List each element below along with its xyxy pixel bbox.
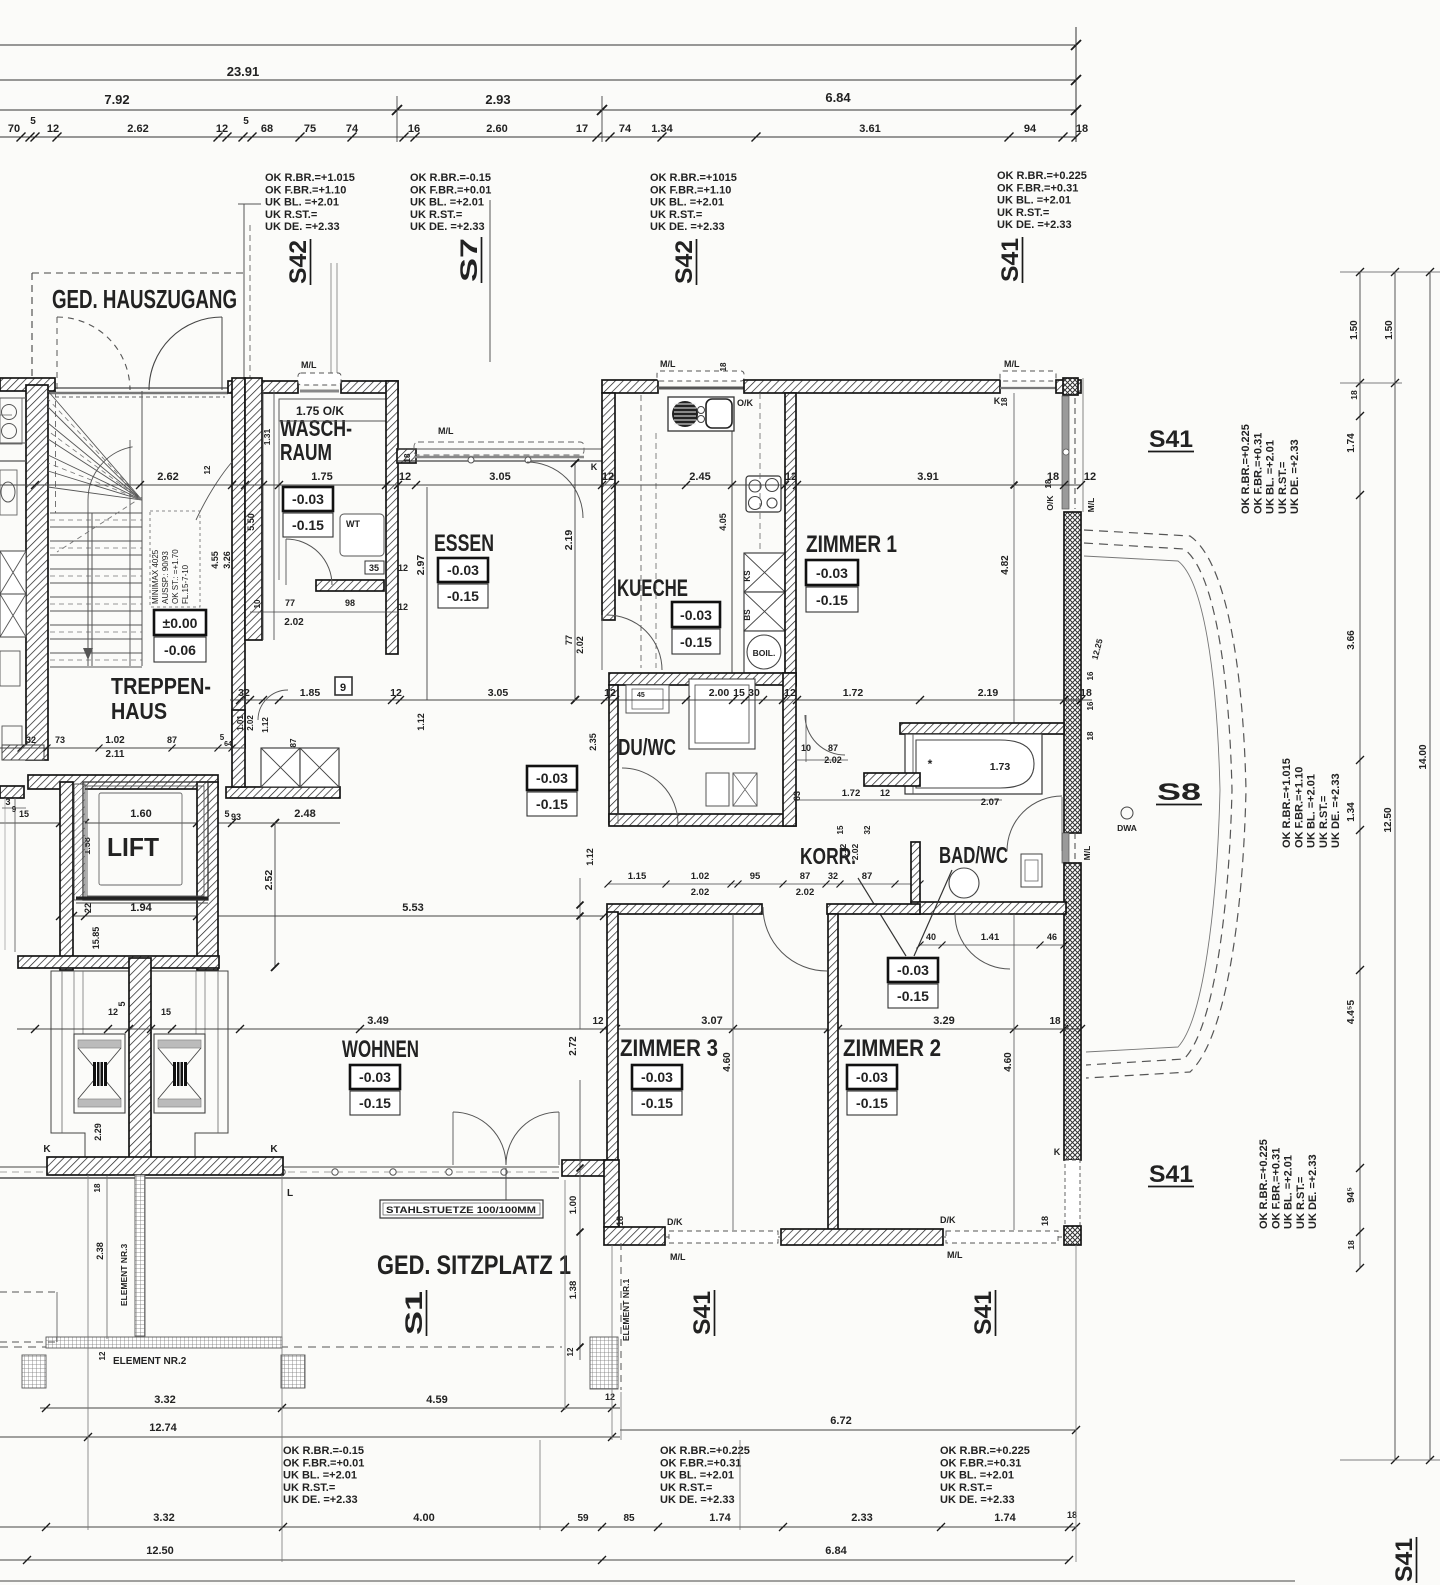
svg-text:UK BL. =+2.01: UK BL. =+2.01 — [283, 1470, 357, 1482]
fixture boiler — [744, 631, 785, 673]
svg-text:2.62: 2.62 — [127, 123, 148, 135]
svg-text:OK F.BR.=+1.10: OK F.BR.=+1.10 — [1293, 767, 1305, 848]
wall zimmer1 top — [744, 380, 1000, 393]
svg-text:OK F.BR.=+0.01: OK F.BR.=+0.01 — [283, 1457, 364, 1469]
svg-text:UK R.ST.=: UK R.ST.= — [1295, 1177, 1307, 1229]
svg-text:K: K — [43, 1144, 51, 1155]
text block minimax rotated — [150, 511, 200, 607]
dimension line y700 interior — [230, 699, 1092, 701]
section mark S41 bottom right — [970, 1290, 997, 1336]
svg-text:OK F.BR.=+0.31: OK F.BR.=+0.31 — [1252, 433, 1264, 514]
wall kueche left — [602, 393, 615, 620]
svg-text:3: 3 — [5, 797, 10, 807]
svg-text:18: 18 — [1086, 731, 1095, 740]
svg-text:ZIMMER 1: ZIMMER 1 — [806, 531, 897, 558]
svg-text:2.02: 2.02 — [246, 715, 255, 731]
svg-text:ELEMENT NR.3: ELEMENT NR.3 — [119, 1244, 129, 1307]
svg-text:18: 18 — [615, 1216, 625, 1226]
svg-text:D/K: D/K — [940, 1215, 956, 1225]
waschraum left interior face — [278, 421, 280, 580]
svg-text:1.50: 1.50 — [1349, 320, 1360, 340]
svg-text:3.07: 3.07 — [701, 1015, 722, 1027]
svg-text:12: 12 — [605, 1392, 615, 1402]
svg-text:WOHNEN: WOHNEN — [342, 1036, 419, 1063]
svg-text:KS: KS — [743, 570, 752, 582]
svg-text:UK BL. =+2.01: UK BL. =+2.01 — [997, 195, 1071, 207]
dimension line y1408 — [40, 1407, 620, 1409]
svg-text:BS: BS — [743, 609, 752, 621]
svg-text:OK F.BR.=+0.31: OK F.BR.=+0.31 — [940, 1457, 1021, 1469]
svg-text:HAUS: HAUS — [111, 698, 167, 724]
wall machine center — [129, 958, 151, 1160]
svg-text:1.12: 1.12 — [261, 717, 270, 733]
svg-text:1.74: 1.74 — [994, 1512, 1016, 1524]
door arc essen-kueche — [527, 462, 583, 518]
window band wohnen bottom — [0, 1166, 559, 1168]
svg-text:-0.15: -0.15 — [292, 517, 324, 533]
svg-text:UK BL. =+2.01: UK BL. =+2.01 — [940, 1470, 1014, 1482]
svg-text:5: 5 — [30, 116, 36, 127]
elevation box essen — [438, 558, 488, 582]
svg-text:5.50: 5.50 — [246, 513, 256, 531]
drain DWA — [1121, 807, 1133, 819]
svg-text:±0.00: ±0.00 — [163, 615, 198, 631]
svg-text:1.02: 1.02 — [691, 871, 710, 882]
door arc zimmer3 — [763, 907, 827, 971]
level text block right top rotated — [1240, 424, 1301, 514]
machine room outline — [51, 971, 228, 1158]
treppenhaus door arc bottom — [258, 690, 288, 720]
svg-text:2.48: 2.48 — [294, 808, 315, 820]
leader lines to elevation box korr/bad — [858, 878, 906, 956]
svg-text:2.02: 2.02 — [691, 887, 710, 898]
canopy edge lines — [238, 203, 261, 205]
svg-text:3.49: 3.49 — [367, 1015, 388, 1027]
svg-text:1.41: 1.41 — [981, 932, 1000, 943]
svg-text:12: 12 — [592, 1016, 604, 1027]
left neighbor x-box cupboards — [0, 551, 26, 594]
level text block right middle rotated — [1281, 758, 1342, 848]
svg-text:STAHLSTUETZE 100/100MM: STAHLSTUETZE 100/100MM — [386, 1205, 536, 1216]
neighbor wall line left of lift — [14, 798, 16, 952]
shaft wall waschraum left — [245, 378, 262, 640]
elevation box staircase +-0.00 / -0.06 — [154, 610, 206, 635]
wall top left block — [0, 378, 55, 391]
svg-text:M/L: M/L — [670, 1252, 686, 1262]
svg-text:3.05: 3.05 — [489, 471, 510, 483]
dim 4.60 rotated z3 — [732, 914, 734, 1230]
svg-text:S7: S7 — [456, 238, 483, 282]
dimension line y1029 — [17, 1028, 1081, 1030]
svg-text:32: 32 — [828, 871, 838, 881]
wall wohnen/zimmer3 divider — [607, 912, 618, 1227]
fixture shower — [689, 679, 755, 749]
svg-text:M/L: M/L — [947, 1250, 963, 1260]
wall staircase right — [232, 378, 245, 748]
svg-text:-0.15: -0.15 — [359, 1095, 391, 1111]
element corner blocks — [22, 1355, 46, 1388]
window zimmer3 bottom D/K M/L — [665, 1236, 781, 1238]
svg-text:1.34: 1.34 — [1346, 802, 1357, 822]
door arc duwc — [622, 768, 678, 824]
elevation box kueche — [672, 602, 720, 627]
bottom vertical extension lines — [87, 1175, 89, 1530]
svg-text:UK DE. =+2.33: UK DE. =+2.33 — [997, 219, 1072, 231]
korr dims 63 1.72 12 2.07 — [796, 799, 1002, 801]
svg-text:-0.03: -0.03 — [292, 491, 324, 507]
lift cab — [83, 782, 208, 900]
svg-text:12: 12 — [880, 788, 890, 798]
svg-text:2.52: 2.52 — [263, 870, 275, 891]
double door wohnen terrace — [453, 1112, 506, 1165]
kitchen counter edge — [731, 431, 733, 673]
svg-text:1.72: 1.72 — [843, 687, 864, 699]
svg-text:OK ST.: =+1.70: OK ST.: =+1.70 — [171, 549, 180, 604]
window M/L zimmer1 top — [1000, 371, 1056, 381]
svg-text:2.35: 2.35 — [588, 733, 598, 751]
svg-text:30: 30 — [748, 687, 760, 699]
fixture washbasin bad — [949, 868, 979, 898]
svg-text:6.84: 6.84 — [825, 90, 851, 105]
svg-text:5.53: 5.53 — [402, 902, 423, 914]
svg-text:18: 18 — [403, 453, 412, 462]
window zimmer2 bottom — [943, 1236, 1062, 1238]
door arc zimmer2 — [955, 914, 1010, 969]
fixture wc duwc — [706, 773, 729, 806]
svg-text:64: 64 — [224, 741, 232, 748]
svg-text:3.29: 3.29 — [933, 1015, 954, 1027]
svg-text:63: 63 — [792, 791, 802, 801]
svg-text:5: 5 — [224, 809, 229, 819]
wall zimmer3/zimmer2 divider — [828, 914, 838, 1230]
svg-text:2.72: 2.72 — [568, 1036, 579, 1056]
dashed canopy boundary hauszugang — [32, 272, 247, 274]
svg-text:98: 98 — [345, 598, 355, 608]
wall bad bottom — [911, 902, 1066, 914]
dimension line y1527 — [0, 1526, 1076, 1528]
svg-text:UK DE. =+2.33: UK DE. =+2.33 — [1330, 773, 1342, 848]
dim line 2.38 vertical — [106, 1176, 108, 1339]
dimension line y884 corridor — [608, 883, 920, 885]
svg-text:95: 95 — [750, 871, 761, 882]
wall duwc bottom — [609, 814, 796, 826]
svg-text:OK R.BR.=+0.225: OK R.BR.=+0.225 — [997, 170, 1087, 182]
svg-text:1.31: 1.31 — [262, 428, 272, 445]
svg-text:MINIMAX 4025: MINIMAX 4025 — [151, 549, 160, 604]
svg-text:-0.15: -0.15 — [897, 988, 929, 1004]
wall staircase left — [26, 385, 48, 760]
svg-text:12: 12 — [47, 123, 59, 135]
svg-text:S41: S41 — [997, 238, 1024, 282]
entry threshold lines — [48, 387, 228, 389]
dimension line 7.92 / 2.93 / 6.84 — [0, 109, 1076, 111]
svg-text:94⁵: 94⁵ — [1346, 1187, 1357, 1203]
dim 2.19 rotated essen — [574, 463, 576, 700]
svg-text:12.50: 12.50 — [146, 1545, 174, 1557]
svg-text:S41: S41 — [970, 1291, 997, 1335]
svg-text:23.91: 23.91 — [227, 64, 260, 79]
kitchen counter dashed lines — [640, 395, 642, 668]
svg-text:WT: WT — [346, 519, 360, 529]
svg-text:6.72: 6.72 — [830, 1415, 851, 1427]
wall band below lift area — [47, 1157, 283, 1175]
wall waschraum right — [386, 381, 398, 654]
svg-text:WASCH-: WASCH- — [280, 415, 352, 441]
svg-text:1.50: 1.50 — [1384, 320, 1395, 340]
svg-text:12: 12 — [398, 563, 408, 573]
section mark S1 — [401, 1290, 428, 1336]
boxed label 9 — [335, 677, 352, 695]
section mark S41 bottom middle — [689, 1290, 716, 1336]
dim 4.82 rotated zimmer1 — [1013, 393, 1015, 723]
wall lift top — [28, 775, 218, 789]
fixture WT washbasin — [340, 514, 384, 556]
svg-text:UK R.ST.=: UK R.ST.= — [940, 1482, 992, 1494]
svg-text:7.92: 7.92 — [104, 92, 129, 107]
svg-text:1.12: 1.12 — [585, 848, 595, 866]
balcony curved parapet dashed inner — [1084, 543, 1232, 1065]
svg-text:-0.15: -0.15 — [856, 1095, 888, 1111]
svg-text:OK R.BR.=+0.225: OK R.BR.=+0.225 — [1240, 424, 1252, 514]
svg-text:UK BL. =+2.01: UK BL. =+2.01 — [1306, 774, 1318, 848]
wall waschraum right notch — [397, 449, 416, 463]
window M/L waschraum top — [298, 373, 341, 385]
svg-text:2.19: 2.19 — [563, 530, 575, 551]
svg-text:4.00: 4.00 — [413, 1512, 434, 1524]
svg-text:S1: S1 — [401, 1291, 428, 1335]
elevation box waschraum — [283, 487, 333, 511]
svg-text:12: 12 — [390, 687, 402, 699]
svg-text:GED. SITZPLATZ 1: GED. SITZPLATZ 1 — [377, 1250, 571, 1280]
svg-text:6.84: 6.84 — [825, 1545, 847, 1557]
svg-text:3.32: 3.32 — [154, 1394, 175, 1406]
svg-text:87: 87 — [800, 871, 811, 882]
svg-text:1.00: 1.00 — [568, 1196, 579, 1215]
elevation box zimmer3 — [632, 1065, 682, 1089]
wall waschraum interior bottom — [316, 580, 384, 591]
svg-text:4.4⁵5: 4.4⁵5 — [1346, 999, 1357, 1024]
waschraum bottom small dims — [250, 611, 398, 613]
svg-text:18: 18 — [719, 362, 728, 371]
svg-text:S42: S42 — [285, 240, 312, 284]
svg-text:4.59: 4.59 — [426, 1394, 447, 1406]
wall duwc right — [783, 673, 796, 826]
fixture KS cupboard x-box — [744, 553, 785, 592]
wall zimmer3 top — [607, 904, 762, 914]
boxed label 35 — [365, 561, 384, 574]
door arc bad — [1007, 796, 1062, 851]
svg-text:68: 68 — [261, 123, 273, 135]
window M/L kitchen top — [657, 371, 744, 381]
svg-text:2.45: 2.45 — [689, 471, 710, 483]
svg-text:-0.03: -0.03 — [816, 565, 848, 581]
svg-text:OK R.BR.=+0.225: OK R.BR.=+0.225 — [1258, 1139, 1270, 1229]
svg-text:D/K: D/K — [667, 1217, 683, 1227]
right dim horizontal connectors — [1340, 271, 1440, 273]
dim line 2.72 wohnen right — [579, 878, 581, 1029]
svg-text:UK DE. =+2.33: UK DE. =+2.33 — [940, 1494, 1015, 1506]
svg-text:OK R.BR.=+0.225: OK R.BR.=+0.225 — [940, 1445, 1030, 1457]
counterweight symbol right — [154, 1034, 205, 1113]
svg-text:O/K: O/K — [1045, 495, 1055, 511]
svg-text:4.55: 4.55 — [210, 551, 220, 569]
svg-text:22: 22 — [83, 903, 93, 913]
wall band right of stair to xboxes — [226, 787, 340, 798]
wall exterior right lower — [1064, 863, 1081, 1160]
svg-text:18: 18 — [1067, 1510, 1077, 1520]
label STAHLSTUETZE boxed — [380, 1200, 543, 1218]
svg-text:87: 87 — [289, 738, 298, 747]
dim 4.60 rotated z2 — [1013, 914, 1015, 1230]
svg-text:UK DE. =+2.33: UK DE. =+2.33 — [1289, 439, 1301, 514]
dashed boundary sitzplatz — [0, 1346, 562, 1348]
svg-text:-0.15: -0.15 — [680, 634, 712, 650]
wall exterior right bottom piece — [1064, 1226, 1081, 1245]
svg-text:18: 18 — [1349, 390, 1359, 400]
svg-text:-0.15: -0.15 — [816, 592, 848, 608]
stair winder treads fan — [48, 391, 142, 500]
dimension line y748 treppenhaus — [0, 747, 245, 749]
element nr2 strip horizontal — [46, 1337, 282, 1348]
svg-text:2.93: 2.93 — [485, 92, 510, 107]
svg-text:12: 12 — [604, 687, 616, 699]
element nr1 dashed vertical — [620, 1243, 622, 1390]
svg-text:12: 12 — [398, 602, 408, 612]
svg-text:K: K — [270, 1144, 278, 1155]
svg-text:1.01: 1.01 — [236, 715, 245, 731]
svg-text:35: 35 — [369, 563, 379, 573]
svg-text:UK R.ST.=: UK R.ST.= — [283, 1482, 335, 1494]
svg-text:9: 9 — [340, 682, 346, 694]
svg-text:OK F.BR.=+0.31: OK F.BR.=+0.31 — [660, 1457, 741, 1469]
svg-text:46: 46 — [1047, 932, 1057, 942]
svg-text:UK DE. =+2.33: UK DE. =+2.33 — [410, 221, 485, 233]
dim 2.52 rotated right of lift — [274, 823, 276, 967]
wall waschraum top — [228, 381, 298, 393]
svg-text:UK R.ST.=: UK R.ST.= — [1277, 462, 1289, 514]
svg-text:2.38: 2.38 — [95, 1242, 105, 1260]
svg-text:40: 40 — [926, 932, 936, 942]
svg-text:75: 75 — [304, 123, 316, 135]
svg-text:-0.06: -0.06 — [164, 642, 196, 658]
svg-text:45: 45 — [637, 692, 645, 699]
svg-text:UK BL. =+2.01: UK BL. =+2.01 — [1283, 1155, 1295, 1229]
svg-text:1.73: 1.73 — [990, 761, 1011, 773]
svg-text:2.02: 2.02 — [850, 843, 860, 860]
svg-text:74: 74 — [619, 123, 632, 135]
svg-text:LIFT: LIFT — [107, 832, 159, 862]
balcony curved parapet dashed outer — [1084, 530, 1246, 1078]
wall duwc top (kitchen bottom) — [609, 673, 796, 685]
dimension line y1437 12.74 — [0, 1436, 620, 1438]
svg-text:12: 12 — [108, 1007, 118, 1017]
dim line bad bottom 40 1.41 46 — [920, 944, 1064, 946]
svg-text:70: 70 — [8, 123, 20, 135]
svg-text:15.85: 15.85 — [91, 927, 101, 950]
svg-text:15: 15 — [161, 1007, 171, 1017]
svg-text:18: 18 — [1040, 1216, 1050, 1226]
fixture stove 4 burners — [746, 476, 781, 512]
elevation box korr/bad — [888, 958, 938, 982]
svg-text:OK R.BR.=+1.015: OK R.BR.=+1.015 — [265, 172, 355, 184]
svg-text:BAD/WC: BAD/WC — [939, 842, 1008, 868]
svg-text:2.02: 2.02 — [824, 755, 842, 765]
svg-text:12: 12 — [602, 471, 614, 483]
door arc waschraum — [286, 539, 332, 585]
door arc kueche entry — [607, 615, 662, 670]
svg-text:OK F.BR.=+0.01: OK F.BR.=+0.01 — [410, 184, 491, 196]
wall lift bottom — [18, 956, 219, 968]
element nr3 strip vertical — [135, 1175, 145, 1336]
svg-text:ESSEN: ESSEN — [434, 530, 494, 557]
svg-text:*: * — [928, 757, 933, 771]
svg-text:16: 16 — [1086, 701, 1095, 710]
svg-text:32: 32 — [26, 735, 36, 745]
svg-text:16: 16 — [408, 123, 420, 135]
wall corner vertical to bottom — [604, 1160, 619, 1227]
svg-text:1.74: 1.74 — [1346, 433, 1357, 453]
svg-text:3.61: 3.61 — [859, 123, 880, 135]
fixture washbasin duwc — [626, 685, 669, 713]
svg-text:ZIMMER 3: ZIMMER 3 — [620, 1035, 718, 1062]
svg-text:O/K: O/K — [737, 398, 754, 408]
svg-text:12.50: 12.50 — [1383, 807, 1394, 832]
window band essen top — [398, 448, 605, 450]
svg-text:K: K — [591, 462, 598, 472]
svg-text:18: 18 — [1076, 123, 1088, 135]
svg-text:2.00: 2.00 — [709, 687, 730, 699]
stair direction dashed diagonal — [57, 497, 142, 552]
dimension right column lines — [1359, 272, 1361, 1268]
svg-text:-0.03: -0.03 — [856, 1069, 888, 1085]
svg-text:12: 12 — [785, 471, 797, 483]
dimension line y823 lift — [0, 822, 340, 824]
svg-text:M/L: M/L — [1004, 359, 1020, 369]
elevation box zimmer1 — [806, 560, 858, 585]
svg-text:93: 93 — [231, 812, 241, 822]
svg-text:OK R.BR.=+1.015: OK R.BR.=+1.015 — [1281, 758, 1293, 848]
svg-text:4.60: 4.60 — [1003, 1052, 1014, 1072]
left cut apartment top wall lines — [0, 397, 26, 399]
svg-text:-0.15: -0.15 — [536, 796, 568, 812]
wall bad top — [900, 723, 1064, 734]
svg-text:87: 87 — [828, 743, 838, 753]
machine room inner lines — [61, 971, 63, 1133]
svg-text:M/L: M/L — [1082, 846, 1092, 861]
svg-text:4.05: 4.05 — [718, 513, 728, 531]
svg-text:1.72: 1.72 — [842, 788, 861, 799]
window right M/L middle — [1062, 833, 1069, 863]
svg-text:OK R.BR.=-0.15: OK R.BR.=-0.15 — [283, 1445, 364, 1457]
svg-text:1.12: 1.12 — [838, 843, 848, 860]
svg-text:32: 32 — [238, 687, 250, 699]
bottom page edge dimension line — [0, 1580, 1295, 1582]
svg-text:M/L: M/L — [301, 360, 317, 370]
svg-text:12: 12 — [399, 471, 411, 483]
svg-text:ELEMENT NR.1: ELEMENT NR.1 — [621, 1279, 631, 1342]
svg-text:94: 94 — [1024, 123, 1037, 135]
svg-text:UK R.ST.=: UK R.ST.= — [265, 209, 317, 221]
left neighbor fixtures circles — [0, 398, 22, 444]
svg-text:-0.15: -0.15 — [447, 588, 479, 604]
element nr1 crosshatch block — [590, 1337, 618, 1389]
dimension line y916 lift-wohnen — [60, 915, 604, 917]
svg-text:17: 17 — [576, 123, 588, 135]
wall exterior right middle — [1064, 512, 1081, 833]
svg-text:1.94: 1.94 — [130, 902, 152, 914]
svg-text:RAUM: RAUM — [280, 439, 332, 465]
wall lift right — [197, 782, 218, 970]
